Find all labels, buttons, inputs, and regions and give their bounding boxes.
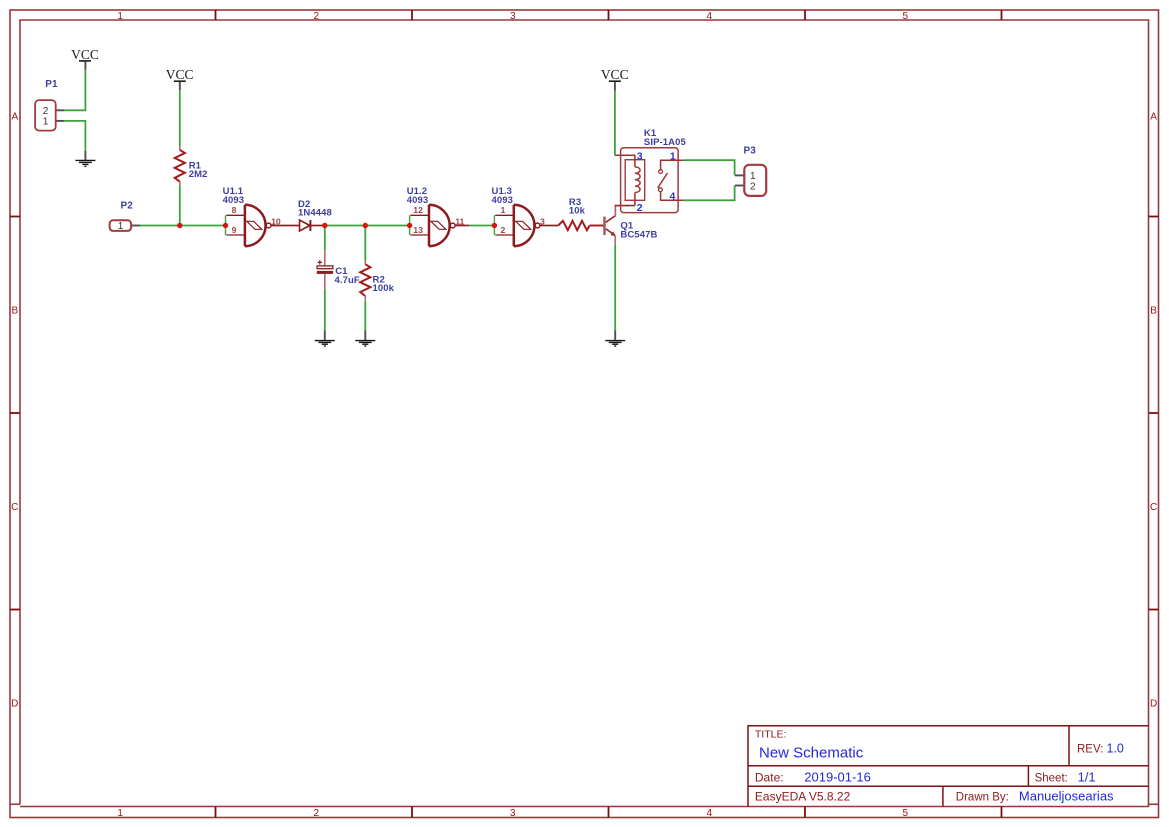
svg-text:VCC: VCC — [601, 67, 629, 82]
svg-text:2: 2 — [750, 182, 756, 193]
svg-text:10k: 10k — [569, 205, 586, 216]
svg-text:D: D — [1150, 698, 1157, 709]
svg-text:BC547B: BC547B — [620, 229, 657, 240]
svg-text:5: 5 — [903, 11, 909, 22]
svg-text:10: 10 — [271, 216, 281, 226]
svg-text:D: D — [11, 698, 18, 709]
svg-text:2: 2 — [43, 106, 49, 117]
svg-text:3: 3 — [510, 11, 516, 22]
svg-text:VCC: VCC — [71, 47, 99, 62]
svg-text:2: 2 — [314, 11, 320, 22]
svg-text:100k: 100k — [373, 283, 395, 294]
svg-text:1: 1 — [43, 117, 49, 128]
svg-text:2: 2 — [500, 225, 505, 235]
svg-text:1: 1 — [750, 171, 756, 182]
svg-text:9: 9 — [232, 225, 237, 235]
svg-text:C: C — [11, 502, 18, 513]
svg-text:1: 1 — [117, 808, 123, 819]
svg-text:4093: 4093 — [223, 195, 245, 206]
svg-text:1/1: 1/1 — [1078, 769, 1096, 784]
svg-text:3: 3 — [637, 150, 643, 162]
svg-text:1: 1 — [118, 221, 124, 232]
svg-text:TITLE:: TITLE: — [755, 729, 787, 741]
svg-text:Manueljosearias: Manueljosearias — [1019, 789, 1114, 804]
svg-text:13: 13 — [413, 225, 423, 235]
svg-text:2: 2 — [314, 808, 320, 819]
svg-text:4.7uF: 4.7uF — [335, 275, 360, 286]
svg-text:P1: P1 — [45, 79, 58, 90]
svg-text:REV:: REV: — [1077, 744, 1103, 756]
svg-text:1: 1 — [117, 11, 123, 22]
svg-text:B: B — [1150, 306, 1157, 317]
svg-text:A: A — [1150, 112, 1157, 123]
svg-text:EasyEDA V5.8.22: EasyEDA V5.8.22 — [755, 790, 851, 804]
svg-text:2019-01-16: 2019-01-16 — [804, 769, 871, 784]
svg-text:P3: P3 — [744, 146, 757, 157]
svg-text:B: B — [11, 306, 18, 317]
svg-text:2M2: 2M2 — [189, 169, 208, 180]
svg-text:Sheet:: Sheet: — [1035, 772, 1068, 784]
svg-text:C: C — [1150, 502, 1157, 513]
svg-text:Date:: Date: — [755, 770, 784, 784]
svg-text:4: 4 — [707, 11, 713, 22]
svg-text:Drawn By:: Drawn By: — [956, 792, 1009, 804]
svg-text:New Schematic: New Schematic — [759, 745, 864, 762]
svg-text:VCC: VCC — [166, 67, 194, 82]
svg-text:4: 4 — [669, 191, 675, 203]
svg-text:8: 8 — [232, 205, 237, 215]
svg-text:2: 2 — [637, 202, 643, 214]
svg-text:A: A — [11, 112, 18, 123]
svg-text:12: 12 — [413, 205, 423, 215]
svg-text:1.0: 1.0 — [1107, 742, 1124, 756]
svg-text:P2: P2 — [121, 201, 134, 212]
svg-text:4093: 4093 — [492, 195, 514, 206]
svg-text:11: 11 — [455, 216, 464, 226]
svg-text:5: 5 — [903, 808, 909, 819]
svg-text:3: 3 — [510, 808, 516, 819]
svg-text:4093: 4093 — [407, 195, 429, 206]
svg-text:3: 3 — [540, 216, 545, 226]
svg-text:1: 1 — [500, 205, 505, 215]
svg-text:1N4448: 1N4448 — [298, 208, 332, 219]
svg-text:1: 1 — [670, 150, 676, 162]
svg-text:4: 4 — [707, 808, 713, 819]
svg-text:SIP-1A05: SIP-1A05 — [644, 137, 687, 148]
